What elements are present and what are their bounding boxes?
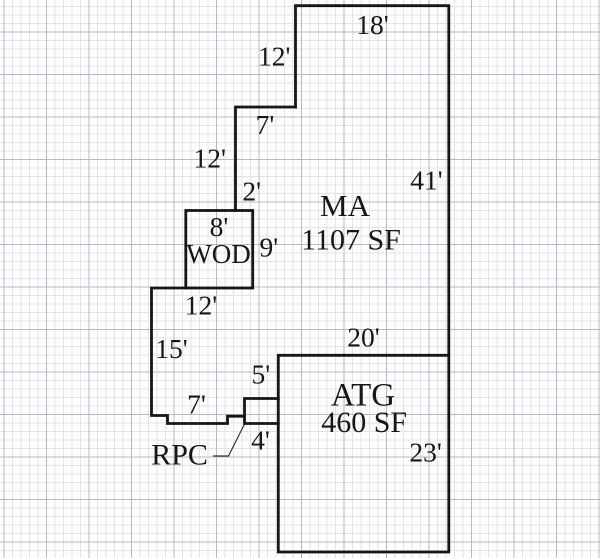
svg-text:2': 2' (242, 176, 261, 207)
svg-text:18': 18' (356, 9, 388, 40)
svg-text:9': 9' (259, 232, 278, 263)
svg-text:WOD: WOD (186, 239, 250, 269)
svg-text:15': 15' (155, 333, 187, 364)
svg-text:1107 SF: 1107 SF (301, 224, 401, 257)
svg-text:41': 41' (410, 164, 442, 195)
svg-text:4': 4' (251, 425, 270, 456)
svg-text:7': 7' (187, 389, 206, 420)
svg-text:12': 12' (193, 142, 225, 173)
svg-text:MA: MA (320, 188, 371, 223)
svg-text:20': 20' (347, 322, 379, 353)
svg-text:12': 12' (258, 41, 290, 72)
svg-text:8': 8' (210, 211, 229, 242)
svg-text:5': 5' (251, 358, 270, 389)
svg-text:7': 7' (256, 109, 275, 140)
svg-text:460 SF: 460 SF (321, 406, 407, 439)
svg-text:RPC: RPC (151, 439, 208, 472)
svg-text:23': 23' (409, 437, 441, 468)
svg-text:12': 12' (185, 290, 217, 321)
